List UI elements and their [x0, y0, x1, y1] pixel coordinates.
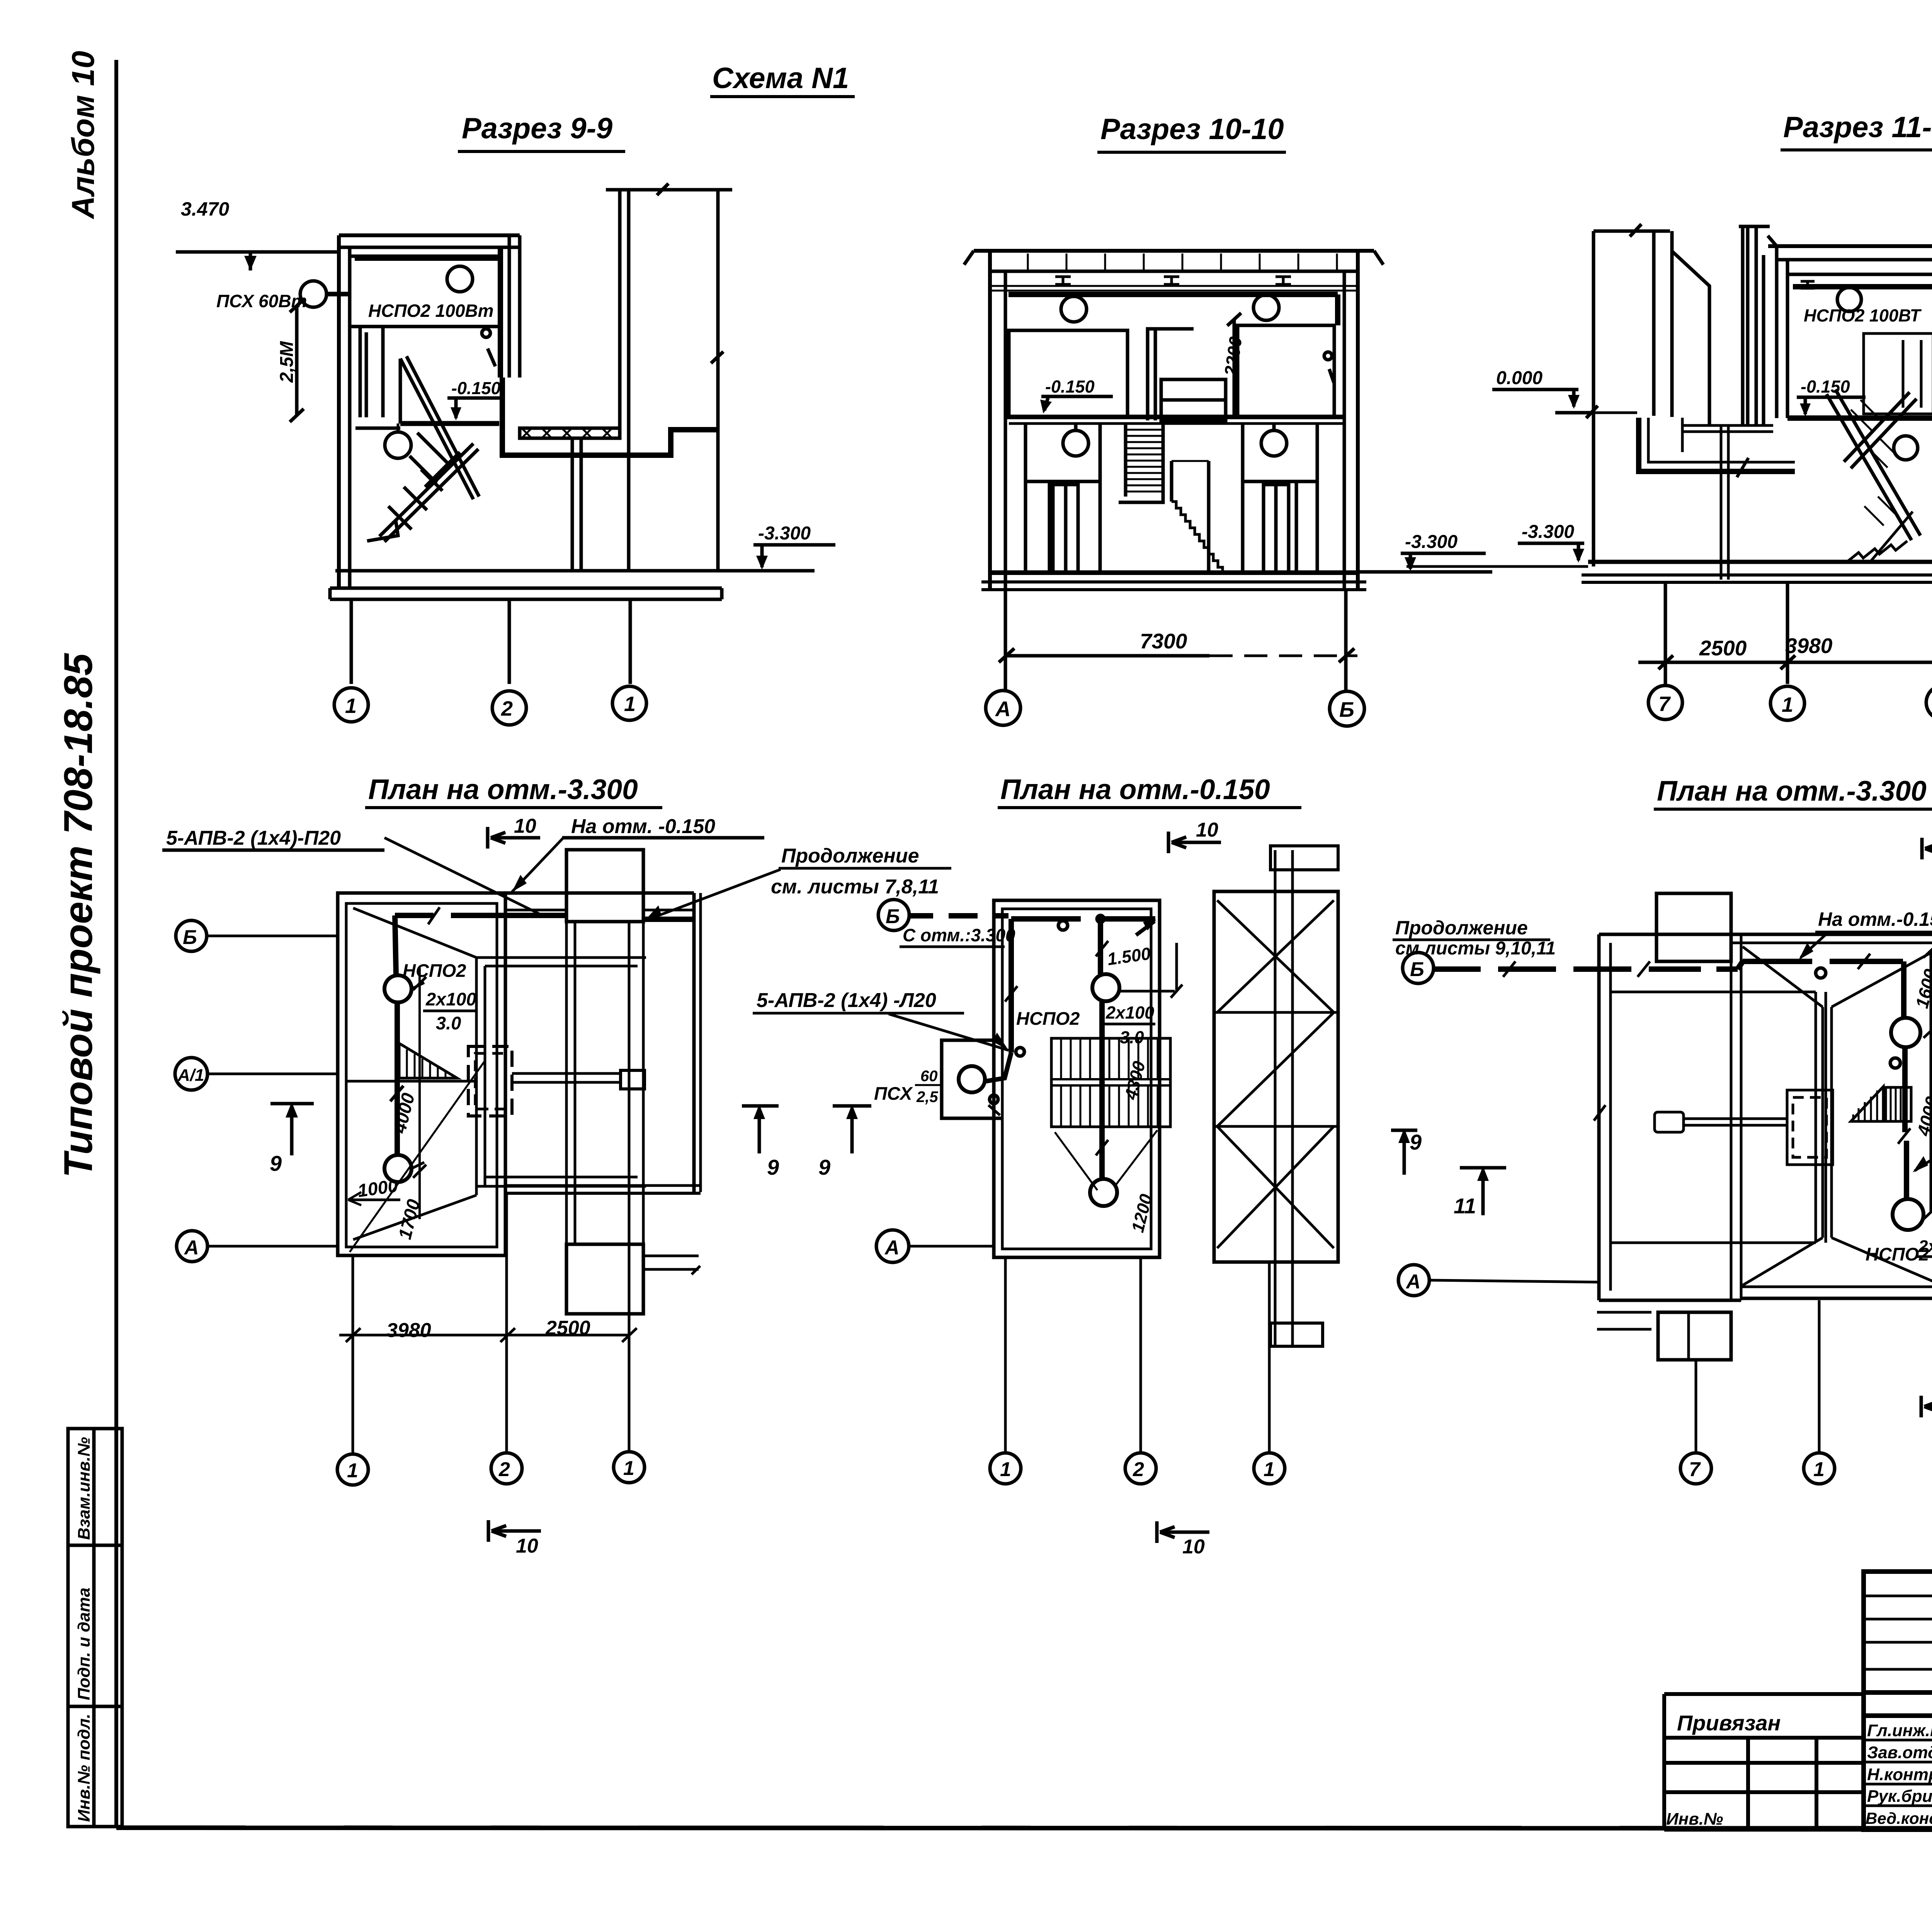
svg-text:НСПО2 100Вт: НСПО2 100Вт	[368, 301, 494, 321]
svg-text:1: 1	[1000, 1458, 1011, 1481]
svg-text:см. листы 7,8,11: см. листы 7,8,11	[771, 876, 939, 898]
svg-text:1: 1	[345, 694, 357, 718]
svg-text:План на отм.-3.300: План на отм.-3.300	[1657, 776, 1927, 807]
svg-text:9: 9	[767, 1155, 779, 1179]
svg-text:9: 9	[818, 1155, 830, 1179]
svg-text:-0.150: -0.150	[451, 378, 501, 398]
svg-text:А/1: А/1	[177, 1066, 204, 1085]
svg-text:9: 9	[270, 1151, 282, 1175]
svg-text:1: 1	[347, 1459, 358, 1482]
svg-text:1: 1	[1264, 1458, 1275, 1481]
svg-text:-3.300: -3.300	[1522, 522, 1574, 542]
svg-text:НСПО2: НСПО2	[403, 960, 466, 981]
svg-text:9: 9	[1410, 1130, 1422, 1154]
svg-text:Разрез 10-10: Разрез 10-10	[1100, 113, 1284, 146]
svg-text:3980: 3980	[1785, 634, 1833, 658]
svg-text:10: 10	[1196, 819, 1218, 841]
svg-text:Н.контр.: Н.контр.	[1867, 1765, 1932, 1784]
svg-text:3.0: 3.0	[436, 1013, 461, 1033]
svg-text:-0.150: -0.150	[1045, 377, 1095, 396]
svg-text:НСПО2 100ВТ: НСПО2 100ВТ	[1804, 306, 1922, 325]
svg-text:1: 1	[1813, 1458, 1825, 1481]
svg-text:Схема N1: Схема N1	[712, 62, 849, 95]
svg-text:Б: Б	[886, 905, 900, 928]
svg-text:ПСХ: ПСХ	[874, 1083, 913, 1104]
svg-text:Б: Б	[1410, 958, 1424, 981]
svg-text:2х100: 2х100	[1105, 1003, 1154, 1022]
svg-text:0.000: 0.000	[1496, 368, 1543, 388]
svg-text:А: А	[995, 697, 1011, 721]
svg-text:Рук.бриг.: Рук.бриг.	[1867, 1787, 1932, 1806]
svg-text:НСПО2: НСПО2	[1016, 1008, 1080, 1029]
svg-text:Продолжение: Продолжение	[781, 845, 919, 867]
svg-text:7: 7	[1658, 692, 1671, 716]
svg-text:1: 1	[623, 1457, 634, 1480]
svg-text:1: 1	[624, 692, 636, 716]
svg-text:А: А	[1405, 1271, 1421, 1293]
svg-text:10: 10	[514, 815, 536, 837]
svg-text:На отм. -0.150: На отм. -0.150	[571, 815, 715, 838]
svg-text:11: 11	[1454, 1194, 1476, 1218]
svg-text:План на отм.-3.300: План на отм.-3.300	[368, 774, 638, 805]
svg-text:Гл.инж.пр: Гл.инж.пр	[1867, 1721, 1932, 1740]
svg-text:С отм.:3.300: С отм.:3.300	[903, 925, 1015, 945]
svg-text:Продолжение: Продолжение	[1395, 917, 1528, 939]
svg-text:2,5: 2,5	[916, 1089, 938, 1106]
svg-text:Б: Б	[1339, 697, 1354, 721]
svg-text:А: А	[184, 1237, 199, 1259]
svg-text:Инв.№ подл.: Инв.№ подл.	[75, 1714, 94, 1822]
svg-text:2: 2	[1133, 1458, 1144, 1481]
svg-text:7300: 7300	[1140, 629, 1187, 653]
svg-text:2,5М: 2,5М	[277, 341, 297, 383]
svg-text:3.470: 3.470	[181, 198, 229, 220]
svg-text:-3.300: -3.300	[1405, 532, 1458, 552]
svg-text:Инв.№: Инв.№	[1666, 1810, 1723, 1829]
svg-text:2х100: 2х100	[425, 989, 476, 1009]
svg-text:1: 1	[1782, 693, 1793, 716]
svg-text:5-АПВ-2 (1х4)-П20: 5-АПВ-2 (1х4)-П20	[166, 827, 341, 849]
svg-text:Зав.отд.: Зав.отд.	[1867, 1743, 1932, 1762]
svg-text:Разрез 9-9: Разрез 9-9	[462, 112, 612, 145]
svg-text:-0.150: -0.150	[1801, 377, 1850, 396]
svg-text:Взам.инв.№: Взам.инв.№	[75, 1437, 94, 1540]
svg-text:3980: 3980	[386, 1319, 431, 1342]
svg-text:Разрез 11-11: Разрез 11-11	[1783, 111, 1932, 144]
svg-text:5-АПВ-2 (1х4) -Л20: 5-АПВ-2 (1х4) -Л20	[757, 989, 936, 1012]
svg-text:Подп. и дата: Подп. и дата	[75, 1588, 94, 1700]
svg-text:60: 60	[920, 1068, 938, 1085]
svg-text:А: А	[884, 1237, 900, 1259]
svg-text:План на отм.-0.150: План на отм.-0.150	[1000, 774, 1270, 805]
svg-text:Б: Б	[183, 926, 197, 949]
svg-text:2х100: 2х100	[1918, 1237, 1932, 1256]
svg-text:10: 10	[1182, 1536, 1205, 1558]
svg-text:Альбом 10: Альбом 10	[66, 51, 101, 219]
svg-text:Вед.констр: Вед.констр	[1866, 1809, 1932, 1827]
svg-text:10: 10	[516, 1535, 538, 1557]
svg-text:-3.300: -3.300	[758, 523, 811, 544]
svg-text:см.листы 9,10,11: см.листы 9,10,11	[1395, 938, 1556, 959]
svg-text:2: 2	[498, 1458, 510, 1481]
svg-text:2: 2	[501, 697, 513, 720]
svg-text:2500: 2500	[1699, 636, 1747, 660]
svg-text:7: 7	[1689, 1458, 1701, 1481]
svg-text:Привязан: Привязан	[1677, 1711, 1781, 1735]
svg-text:Типовой проект 708-18.85: Типовой проект 708-18.85	[56, 653, 101, 1178]
svg-text:На отм.-0.150: На отм.-0.150	[1818, 908, 1932, 930]
